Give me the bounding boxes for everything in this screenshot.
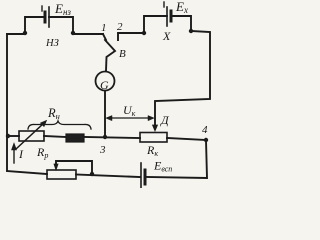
svg-text:1: 1 bbox=[101, 22, 107, 34]
svg-text:3: 3 bbox=[99, 144, 106, 156]
svg-text:4: 4 bbox=[202, 124, 208, 136]
svg-text:Х: Х bbox=[162, 29, 171, 43]
svg-text:НЗ: НЗ bbox=[45, 38, 59, 49]
svg-text:Д: Д bbox=[160, 113, 170, 127]
svg-text:В: В bbox=[119, 48, 126, 60]
svg-text:2: 2 bbox=[117, 21, 123, 33]
svg-text:G: G bbox=[100, 78, 109, 92]
